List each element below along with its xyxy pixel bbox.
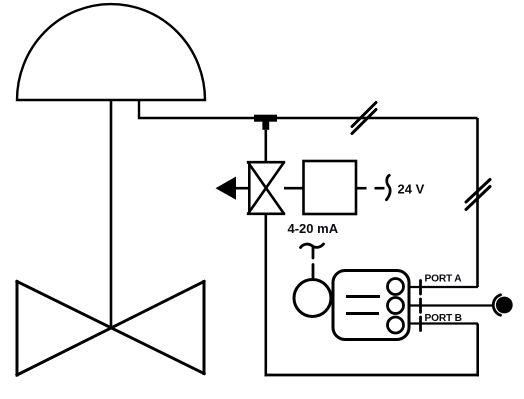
positioner slots [346,297,380,314]
middle port wire [409,304,493,306]
solenoid valve body [247,162,285,214]
supply break dash [375,187,385,190]
tubing right drop to port A [476,118,479,287]
actuator diaphragm dome [17,4,205,100]
tubing break right [466,180,490,210]
signal break squiggle [301,244,324,248]
vent arrow [216,177,237,200]
supply break squiggle [386,175,390,200]
svg-text:4-20 mA: 4-20 mA [288,221,339,236]
port B tick [419,317,422,331]
port A wire [409,286,478,288]
svg-text:PORT A: PORT A [425,274,463,285]
wire vent arrow to valve [236,187,249,190]
wire solenoid valve down [264,214,267,376]
tube tee to solenoid valve [264,130,267,162]
wire coil to supply [356,187,367,190]
tubing break upper [352,103,376,134]
tubing actuator to tee [139,100,478,118]
signal dashed drop [312,248,315,278]
positioner body [333,271,409,340]
svg-text:24 V: 24 V [398,182,425,197]
solenoid coil box [304,161,357,214]
tee fitting [254,115,277,130]
port A tick [419,281,422,295]
wire bottom to port B [476,324,479,377]
positioner port circles [388,279,404,334]
port B wire [409,322,478,324]
middle port tick [419,299,422,312]
svg-text:PORT B: PORT B [425,313,462,324]
valve body bowtie [17,282,204,376]
bottom wire [265,374,480,377]
positioner gauge circle [294,280,331,317]
supply connector dot [496,297,513,314]
valve stem [110,100,113,328]
wire valve to coil box [284,187,304,190]
supply connector arc [493,295,500,315]
